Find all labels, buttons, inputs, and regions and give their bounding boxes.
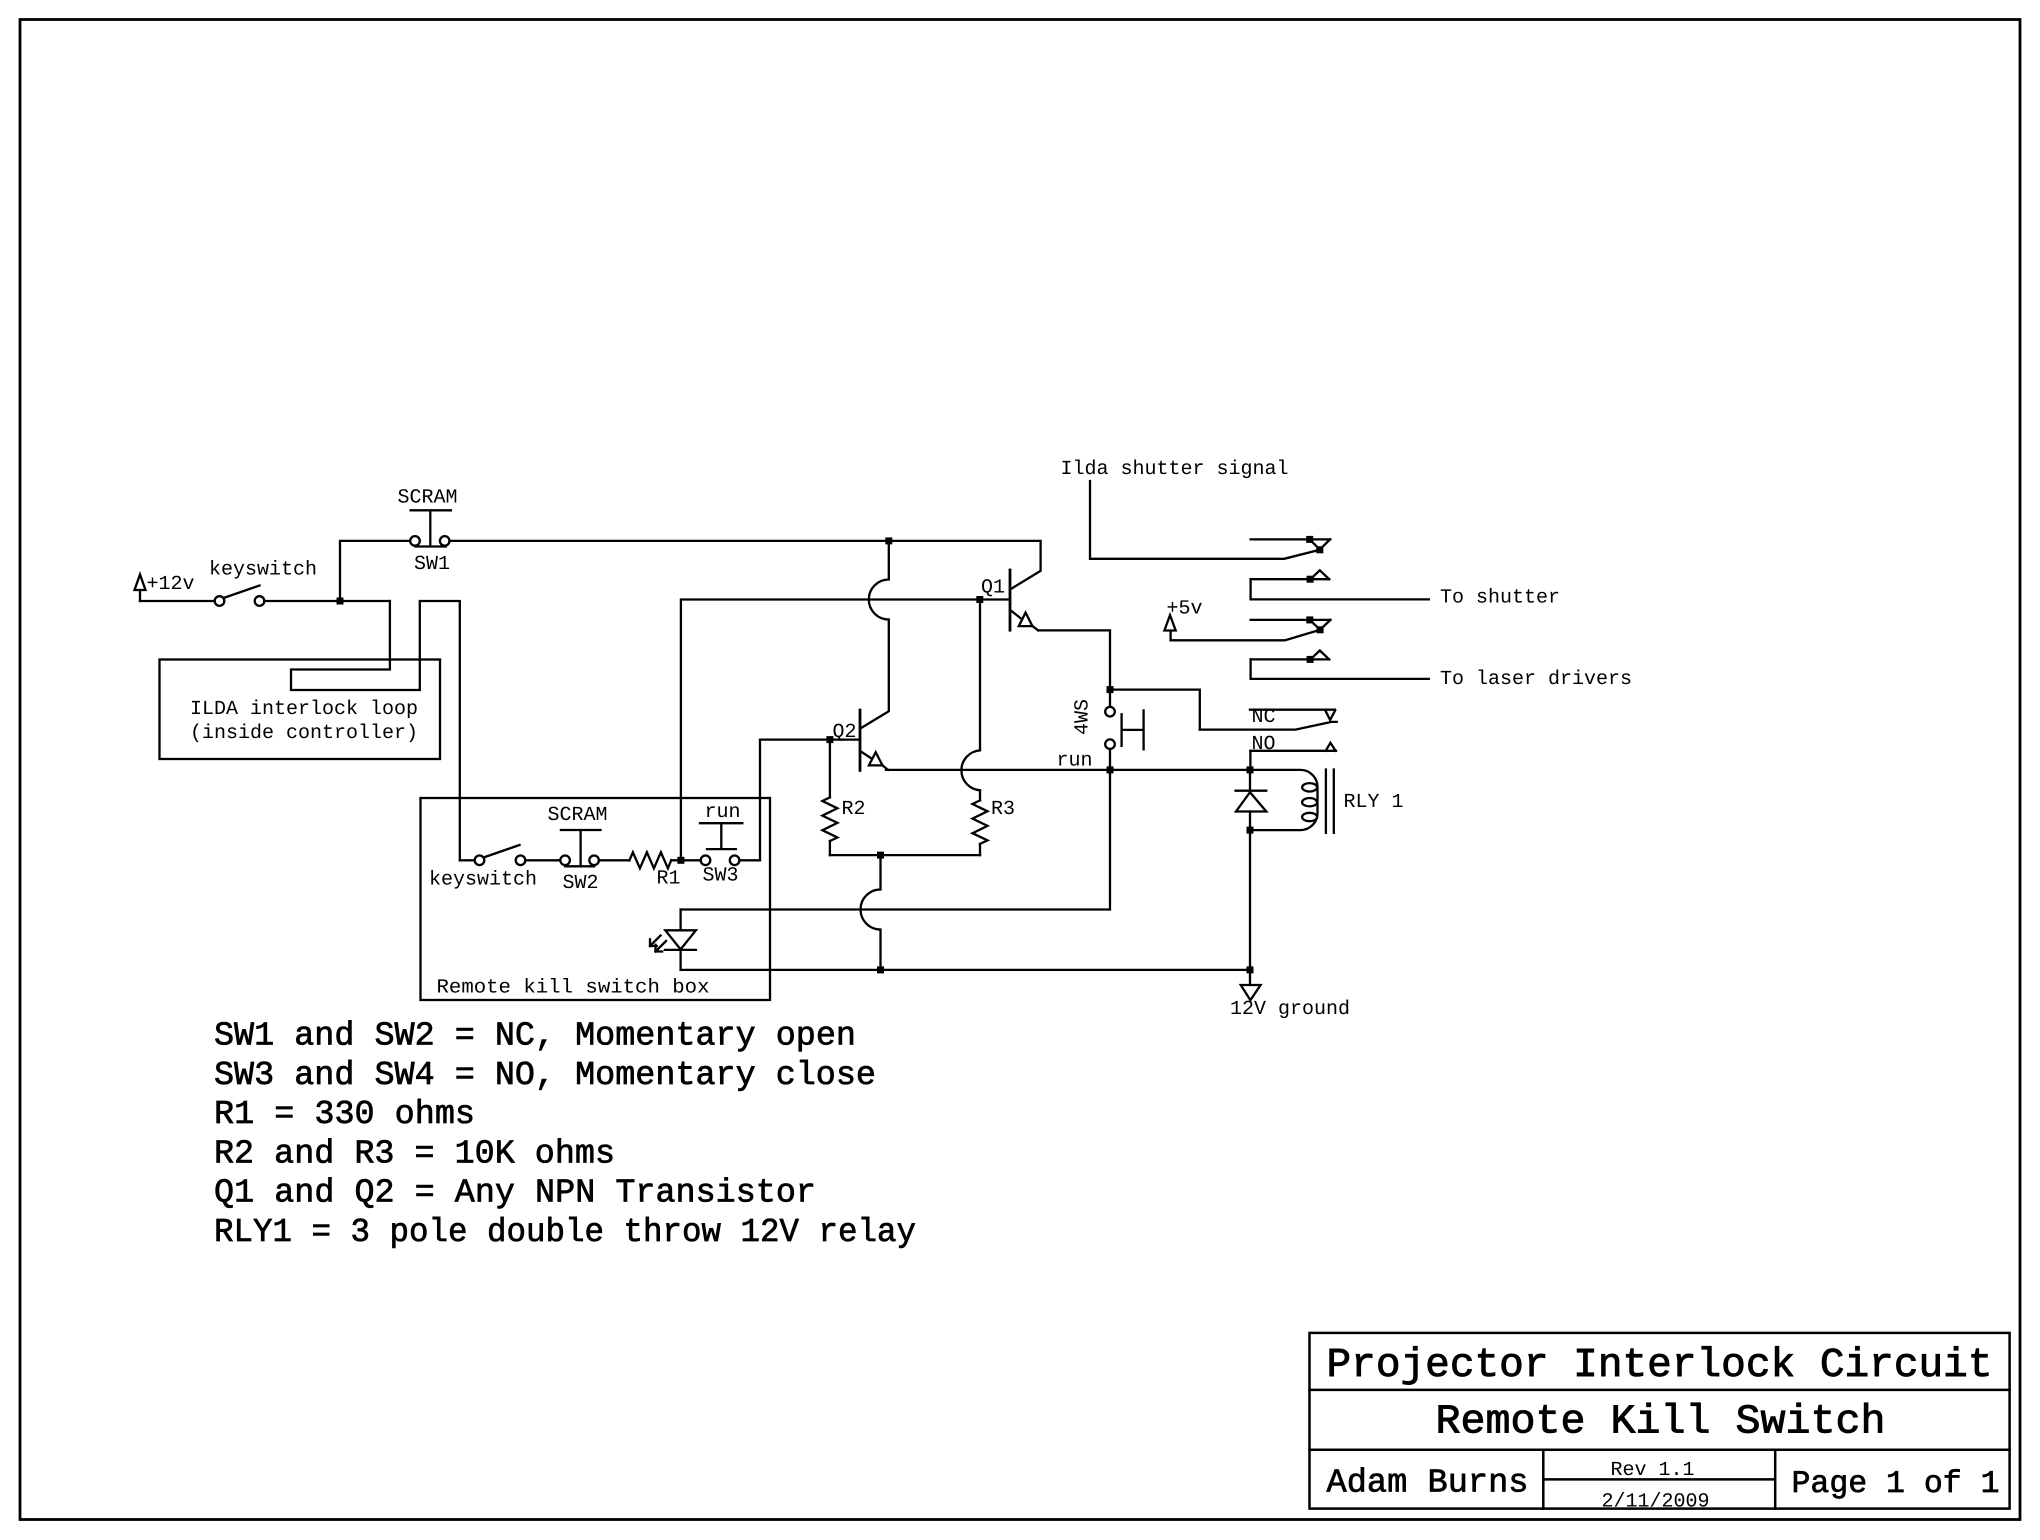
- svg-text:R1: R1: [657, 868, 681, 891]
- svg-text:Ilda shutter signal: Ilda shutter signal: [1061, 458, 1289, 481]
- node A junction dot: [337, 598, 344, 605]
- svg-text:SW2: SW2: [563, 872, 599, 895]
- wire SW2 to R1: [599, 859, 630, 861]
- wire ground rail: [681, 969, 1250, 971]
- pushbutton SW4 (NO momentary): [1105, 707, 1143, 750]
- svg-text:RLY1 = 3 pole double throw 12V: RLY1 = 3 pole double throw 12V relay: [214, 1214, 916, 1252]
- pole B NC contact line: [1251, 619, 1331, 621]
- wire R2-R3 rail: [830, 854, 980, 856]
- pole C NC contact line: [1250, 709, 1335, 711]
- junction dot pole A NC: [1306, 536, 1313, 543]
- junction dot node B: [885, 537, 892, 544]
- keyswitch SW lever: [224, 586, 260, 599]
- svg-text:To shutter: To shutter: [1440, 587, 1560, 610]
- wire to 12V ground: [1249, 970, 1251, 985]
- title block frame: [1310, 1333, 2010, 1509]
- svg-text:SW3: SW3: [703, 865, 739, 888]
- wire node B down to Q2 collector with hop: [862, 541, 889, 728]
- svg-text:Q1: Q1: [981, 577, 1005, 600]
- svg-text:NO: NO: [1252, 733, 1276, 756]
- wire SW1 to Q1 collector corner: [450, 541, 1041, 590]
- svg-text:RLY 1: RLY 1: [1344, 791, 1404, 814]
- junction dot pole A arm tip: [1316, 546, 1323, 553]
- svg-text:R2: R2: [842, 798, 866, 821]
- junction dot rail/R2R3: [877, 966, 884, 973]
- svg-text:Remote Kill Switch: Remote Kill Switch: [1436, 1399, 1886, 1445]
- ground symbol: [1241, 985, 1261, 1000]
- wire +12v to keyswitch: [140, 600, 215, 602]
- wire keyswitch 2 to SW2: [525, 859, 560, 861]
- pushbutton SW1 (NC momentary): [410, 510, 451, 546]
- svg-text:Remote kill switch box: Remote kill switch box: [437, 977, 710, 1000]
- relay core lines: [1326, 770, 1334, 833]
- relay coil RLY1: [1250, 770, 1318, 830]
- junction dot run/SW4: [1107, 766, 1114, 773]
- wire into kill box keyswitch: [460, 859, 475, 861]
- svg-text:R2 and R3 = 10K ohms: R2 and R3 = 10K ohms: [214, 1135, 615, 1173]
- wire pole C NO down to coil: [1249, 751, 1251, 770]
- svg-text:ILDA interlock loop: ILDA interlock loop: [190, 698, 418, 721]
- svg-text:(inside controller): (inside controller): [190, 722, 418, 745]
- LED emission arrows: [650, 936, 666, 952]
- power symbol +12v arrow: [135, 575, 146, 602]
- svg-text:run: run: [705, 801, 741, 824]
- wire pole B NO to laser drivers: [1251, 659, 1429, 679]
- svg-text:SCRAM: SCRAM: [548, 804, 608, 827]
- pole C NC triangle: [1325, 710, 1335, 720]
- junction dot R2-R3 mid: [877, 852, 884, 859]
- svg-text:R1 = 330 ohms: R1 = 330 ohms: [214, 1096, 475, 1134]
- svg-text:Q1 and Q2 = Any NPN Transistor: Q1 and Q2 = Any NPN Transistor: [214, 1175, 816, 1213]
- wire R1 node up to Q1 base rail: [681, 600, 1008, 861]
- junction dot Q2 base: [826, 736, 833, 743]
- wire LED anode rail: [681, 770, 1110, 910]
- wire R3 top to Q1 base with hop: [961, 600, 980, 791]
- box Remote kill switch: [421, 798, 771, 1000]
- svg-text:run: run: [1057, 750, 1093, 773]
- transistor Q1: [1010, 570, 1038, 630]
- wire R1 to SW3: [671, 859, 701, 861]
- wire node A up to SW1: [340, 541, 410, 601]
- pole B NO contact line: [1251, 658, 1330, 660]
- resistor R1: [629, 852, 671, 868]
- junction dot R1/SW3 node: [677, 857, 684, 864]
- junction dot pole B arm tip: [1317, 626, 1324, 633]
- power symbol +5v arrow: [1164, 615, 1175, 640]
- wire Q1 emitter to SW4: [1038, 630, 1110, 686]
- svg-text:keyswitch: keyswitch: [429, 869, 537, 892]
- svg-text:Q2: Q2: [833, 721, 857, 744]
- LED D1: [665, 910, 696, 970]
- resistor R2: [822, 740, 837, 856]
- svg-text:Rev 1.1: Rev 1.1: [1611, 1459, 1695, 1482]
- ILDA interlock loop wire: [291, 601, 460, 860]
- junction dot run/relay/diode: [1247, 766, 1254, 773]
- svg-text:Projector Interlock Circuit: Projector Interlock Circuit: [1327, 1343, 1993, 1389]
- keyswitch contact circles: [215, 596, 265, 606]
- svg-text:NC: NC: [1252, 706, 1276, 729]
- wire R2R3 mid down to ground rail with hop: [861, 855, 881, 970]
- svg-text:2/11/2009: 2/11/2009: [1602, 1491, 1710, 1514]
- pole A NC contact line: [1251, 538, 1331, 540]
- wire keyswitch to node A: [264, 600, 390, 602]
- svg-text:To laser drivers: To laser drivers: [1440, 668, 1632, 691]
- pole A NO triangle: [1310, 570, 1329, 579]
- svg-text:R3: R3: [991, 798, 1015, 821]
- wire +5v to pole B arm: [1171, 630, 1321, 641]
- wire emitter node to pole C arm: [1110, 690, 1200, 730]
- junction dot Q1 base: [976, 596, 983, 603]
- wire emitter node to SW4 top: [1109, 693, 1111, 707]
- pushbutton SW3 (NO momentary): [700, 823, 742, 865]
- transistor Q2: [860, 710, 888, 770]
- junction dot rail/relay: [1247, 966, 1254, 973]
- junction dot pole B NC: [1306, 616, 1313, 623]
- wire diode bottom to ground rail: [1249, 830, 1251, 970]
- svg-text:SW1: SW1: [414, 553, 450, 576]
- svg-text:SCRAM: SCRAM: [398, 487, 458, 510]
- pole C NO contact line: [1250, 750, 1336, 752]
- junction dot Q1 emitter node: [1107, 686, 1114, 693]
- pushbutton SW2 (NC momentary): [560, 830, 600, 866]
- wire SW3 up to Q2 base: [739, 740, 857, 861]
- svg-text:+5v: +5v: [1167, 598, 1203, 621]
- pole C NO triangle: [1326, 743, 1336, 751]
- junction dot pole B NO: [1307, 656, 1314, 663]
- svg-text:4WS: 4WS: [1072, 699, 1095, 735]
- box ILDA interlock loop: [160, 660, 441, 760]
- svg-text:keyswitch: keyswitch: [209, 559, 317, 582]
- svg-text:+12v: +12v: [147, 573, 195, 596]
- pole B NC triangle: [1310, 620, 1331, 630]
- pole B NO triangle: [1310, 651, 1329, 660]
- pole C arm from SW4: [1200, 722, 1337, 730]
- keyswitch 2 contact circles: [475, 856, 526, 866]
- wire run rail: [886, 769, 1250, 771]
- junction dot pole A NO: [1307, 576, 1314, 583]
- svg-text:12V ground: 12V ground: [1230, 998, 1350, 1021]
- svg-text:SW3 and SW4 = NO, Momentary cl: SW3 and SW4 = NO, Momentary close: [214, 1057, 876, 1095]
- pole A NC triangle: [1310, 539, 1330, 549]
- wire SW4 bottom to run rail: [1109, 749, 1111, 770]
- pole A NO contact line: [1251, 578, 1330, 580]
- svg-text:Adam Burns: Adam Burns: [1327, 1465, 1529, 1503]
- junction dot diode bottom: [1247, 827, 1254, 834]
- wire Ilda signal to pole A arm: [1090, 481, 1320, 559]
- diode D2: [1236, 770, 1267, 830]
- wire pole A NO to shutter: [1251, 579, 1429, 599]
- svg-text:SW1 and SW2 = NC, Momentary op: SW1 and SW2 = NC, Momentary open: [214, 1018, 856, 1056]
- svg-text:Page 1 of 1: Page 1 of 1: [1792, 1467, 2000, 1502]
- resistor R3: [973, 790, 988, 855]
- keyswitch 2 lever: [484, 845, 520, 858]
